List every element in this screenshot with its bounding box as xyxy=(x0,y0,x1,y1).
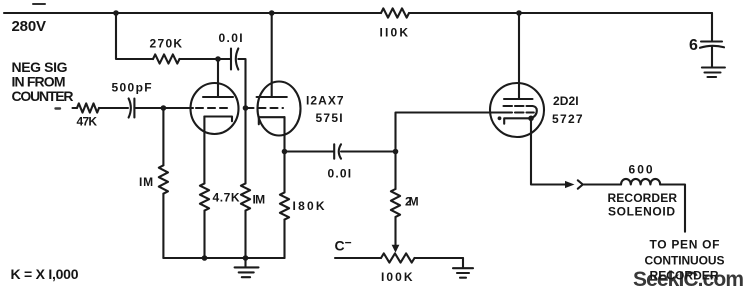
connector arrowhead xyxy=(565,181,575,188)
gas dot inside V2 xyxy=(498,116,502,120)
wire R6 to wiper arrow xyxy=(394,217,396,246)
svg-text:6: 6 xyxy=(689,37,698,54)
node rail to plate V2 xyxy=(516,10,522,16)
tube V1a 12AX7 envelope xyxy=(191,83,239,134)
svg-text:47K: 47K xyxy=(77,115,99,129)
svg-text:0.0I: 0.0I xyxy=(219,31,245,45)
wire cap to ground xyxy=(711,47,713,68)
node grid V1a / R2 junction xyxy=(161,105,167,111)
scan mark 2 xyxy=(56,107,61,109)
wire R5 to ground bus xyxy=(244,211,246,259)
tube V2 2D21 thyratron envelope xyxy=(490,83,544,137)
wire drop from rail to 270K row xyxy=(116,13,153,59)
resistor R4 180K cathode V1b xyxy=(280,192,289,219)
svg-text:RECORDER: RECORDER xyxy=(608,191,678,205)
svg-text:I00K: I00K xyxy=(381,270,414,284)
svg-text:2M: 2M xyxy=(405,195,420,209)
wire node to R4 xyxy=(283,152,285,193)
shield grid V2 (dashed) xyxy=(504,105,533,107)
resistor R3 4.7K cathode V1a xyxy=(200,183,209,210)
wiper arrowhead onto 100K pot xyxy=(392,245,400,253)
cathode V1a xyxy=(204,117,232,122)
wire input lead xyxy=(73,107,78,109)
svg-text:280V: 280V xyxy=(12,18,47,35)
capacitor C4 6uF filter xyxy=(701,40,722,42)
wire grid feed up and right to V2 xyxy=(396,113,504,152)
svg-text:K = X I,000: K = X I,000 xyxy=(11,266,79,282)
grid V1a (dashed) xyxy=(196,107,230,109)
scan mark xyxy=(33,3,45,5)
control grid V2 (dashed) xyxy=(504,111,534,113)
wire C1 to grid node xyxy=(134,107,193,109)
ground bus xyxy=(163,257,284,259)
wire plate lead V1b from rail xyxy=(271,13,273,97)
wire plate node to C2 xyxy=(218,58,231,60)
inductor 600 recorder solenoid xyxy=(621,179,660,185)
svg-text:0.0I: 0.0I xyxy=(328,167,353,181)
wire cathode V2 down and right to output arrow xyxy=(531,118,566,184)
wire plate lead V1a xyxy=(217,59,219,97)
svg-text:4.7K: 4.7K xyxy=(213,191,242,205)
svg-text:IM: IM xyxy=(139,175,155,189)
cathode V1b xyxy=(259,117,285,124)
wire coil to output drop xyxy=(660,185,685,232)
svg-text:270K: 270K xyxy=(150,37,184,51)
wire 270K to plate node xyxy=(180,58,219,60)
svg-text:I2AX7: I2AX7 xyxy=(306,94,345,108)
wire cathode V1b down to node xyxy=(283,117,285,151)
wire C3 to grid node of V2 xyxy=(341,150,396,152)
wire C3 row from cathode node xyxy=(285,150,335,152)
potentiometer 100K xyxy=(381,253,414,262)
plate bar V2 xyxy=(504,98,533,100)
ground symbol at filter cap xyxy=(702,68,725,78)
wire R3 to ground bus xyxy=(203,211,205,259)
svg-text:575I: 575I xyxy=(316,111,345,125)
svg-text:CONTINUOUS: CONTINUOUS xyxy=(645,254,725,268)
ground symbol at pot xyxy=(453,258,473,278)
wire C- lead to pot xyxy=(335,257,381,259)
svg-text:COUNTER: COUNTER xyxy=(12,88,74,104)
wire R2 to ground bus xyxy=(162,194,164,258)
svg-text:600: 600 xyxy=(629,163,655,177)
wire 280V supply rail left segment xyxy=(4,12,381,14)
wire 280V supply rail right segment xyxy=(409,12,712,14)
resistor R6 2M xyxy=(391,189,400,217)
node junction rail to 270K dropper xyxy=(113,10,119,16)
wire plate lead V2 from rail xyxy=(518,13,520,99)
wire cathode V1a down to R3 xyxy=(203,117,205,184)
node bus / R5 / ground xyxy=(243,255,249,261)
wire R4 to ground bus xyxy=(283,220,285,258)
svg-text:2D2I: 2D2I xyxy=(553,94,580,108)
svg-text:IM: IM xyxy=(253,193,267,207)
svg-text:II0K: II0K xyxy=(380,26,410,40)
svg-text:SeekIC.com: SeekIC.com xyxy=(633,268,744,291)
capacitor C2 0.01 (plate to grid2 feed) xyxy=(230,49,232,70)
svg-text:5727: 5727 xyxy=(552,112,584,126)
svg-text:I80K: I80K xyxy=(293,199,327,213)
wire chevron to coil xyxy=(584,183,621,185)
capacitor C3 0.01 coupling to thyratron xyxy=(333,144,335,158)
wire C2 to grid feed vertical xyxy=(238,59,245,183)
svg-text:C−: C− xyxy=(335,236,352,254)
capacitor C1 500pF coupling xyxy=(129,99,131,118)
svg-text:500pF: 500pF xyxy=(112,81,154,95)
node rail to plate V1b xyxy=(269,10,275,16)
tube V1b 12AX7 envelope xyxy=(258,82,301,136)
wire node down to R6 xyxy=(394,152,396,190)
resistor R2 1M grid leak V1a xyxy=(159,165,168,193)
node grid V1b junction xyxy=(243,105,249,111)
plate bar V1b xyxy=(257,96,287,98)
svg-text:SOLENOID: SOLENOID xyxy=(608,205,675,219)
wire grid node down to R2 xyxy=(162,108,164,165)
grid V1b (dashed) xyxy=(247,107,284,109)
node bus / R3 xyxy=(202,255,208,261)
plate bar V1a xyxy=(203,96,233,98)
node cathode V1b / C3 / R4 xyxy=(282,149,288,155)
wire pot to ground xyxy=(415,257,464,259)
node plate of V1a / 270K / C2 junction xyxy=(215,56,221,62)
svg-text:TO PEN OF: TO PEN OF xyxy=(650,238,720,252)
resistor 270K xyxy=(153,54,179,63)
node cathode V2 / shield tie xyxy=(528,116,534,122)
shield grid tie to cathode xyxy=(531,106,537,118)
resistor 110K (plate supply) xyxy=(381,8,409,17)
node C3 / 2M / grid wire junction xyxy=(393,149,399,155)
wire rail corner down to filter cap xyxy=(711,13,713,40)
resistor R5 1M grid leak V1b xyxy=(241,183,250,210)
cathode V2 xyxy=(504,118,531,123)
wire 47K to C1 xyxy=(99,107,128,109)
ground symbol main xyxy=(235,258,259,277)
connector chevron xyxy=(578,180,583,188)
resistor R1 47K input xyxy=(77,103,99,112)
